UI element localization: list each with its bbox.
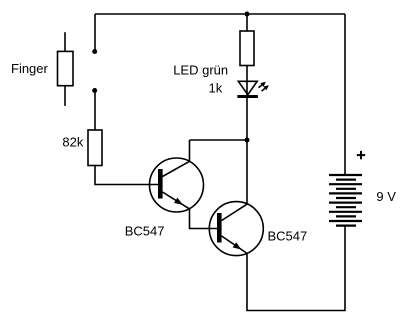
svg-text:BC547: BC547 [125, 223, 165, 238]
svg-text:1k: 1k [209, 81, 223, 96]
svg-text:Finger: Finger [11, 61, 49, 76]
svg-text:BC547: BC547 [268, 228, 308, 243]
svg-text:82k: 82k [62, 135, 83, 150]
svg-text:LED grün: LED grün [173, 63, 228, 78]
svg-text:9 V: 9 V [376, 189, 396, 204]
